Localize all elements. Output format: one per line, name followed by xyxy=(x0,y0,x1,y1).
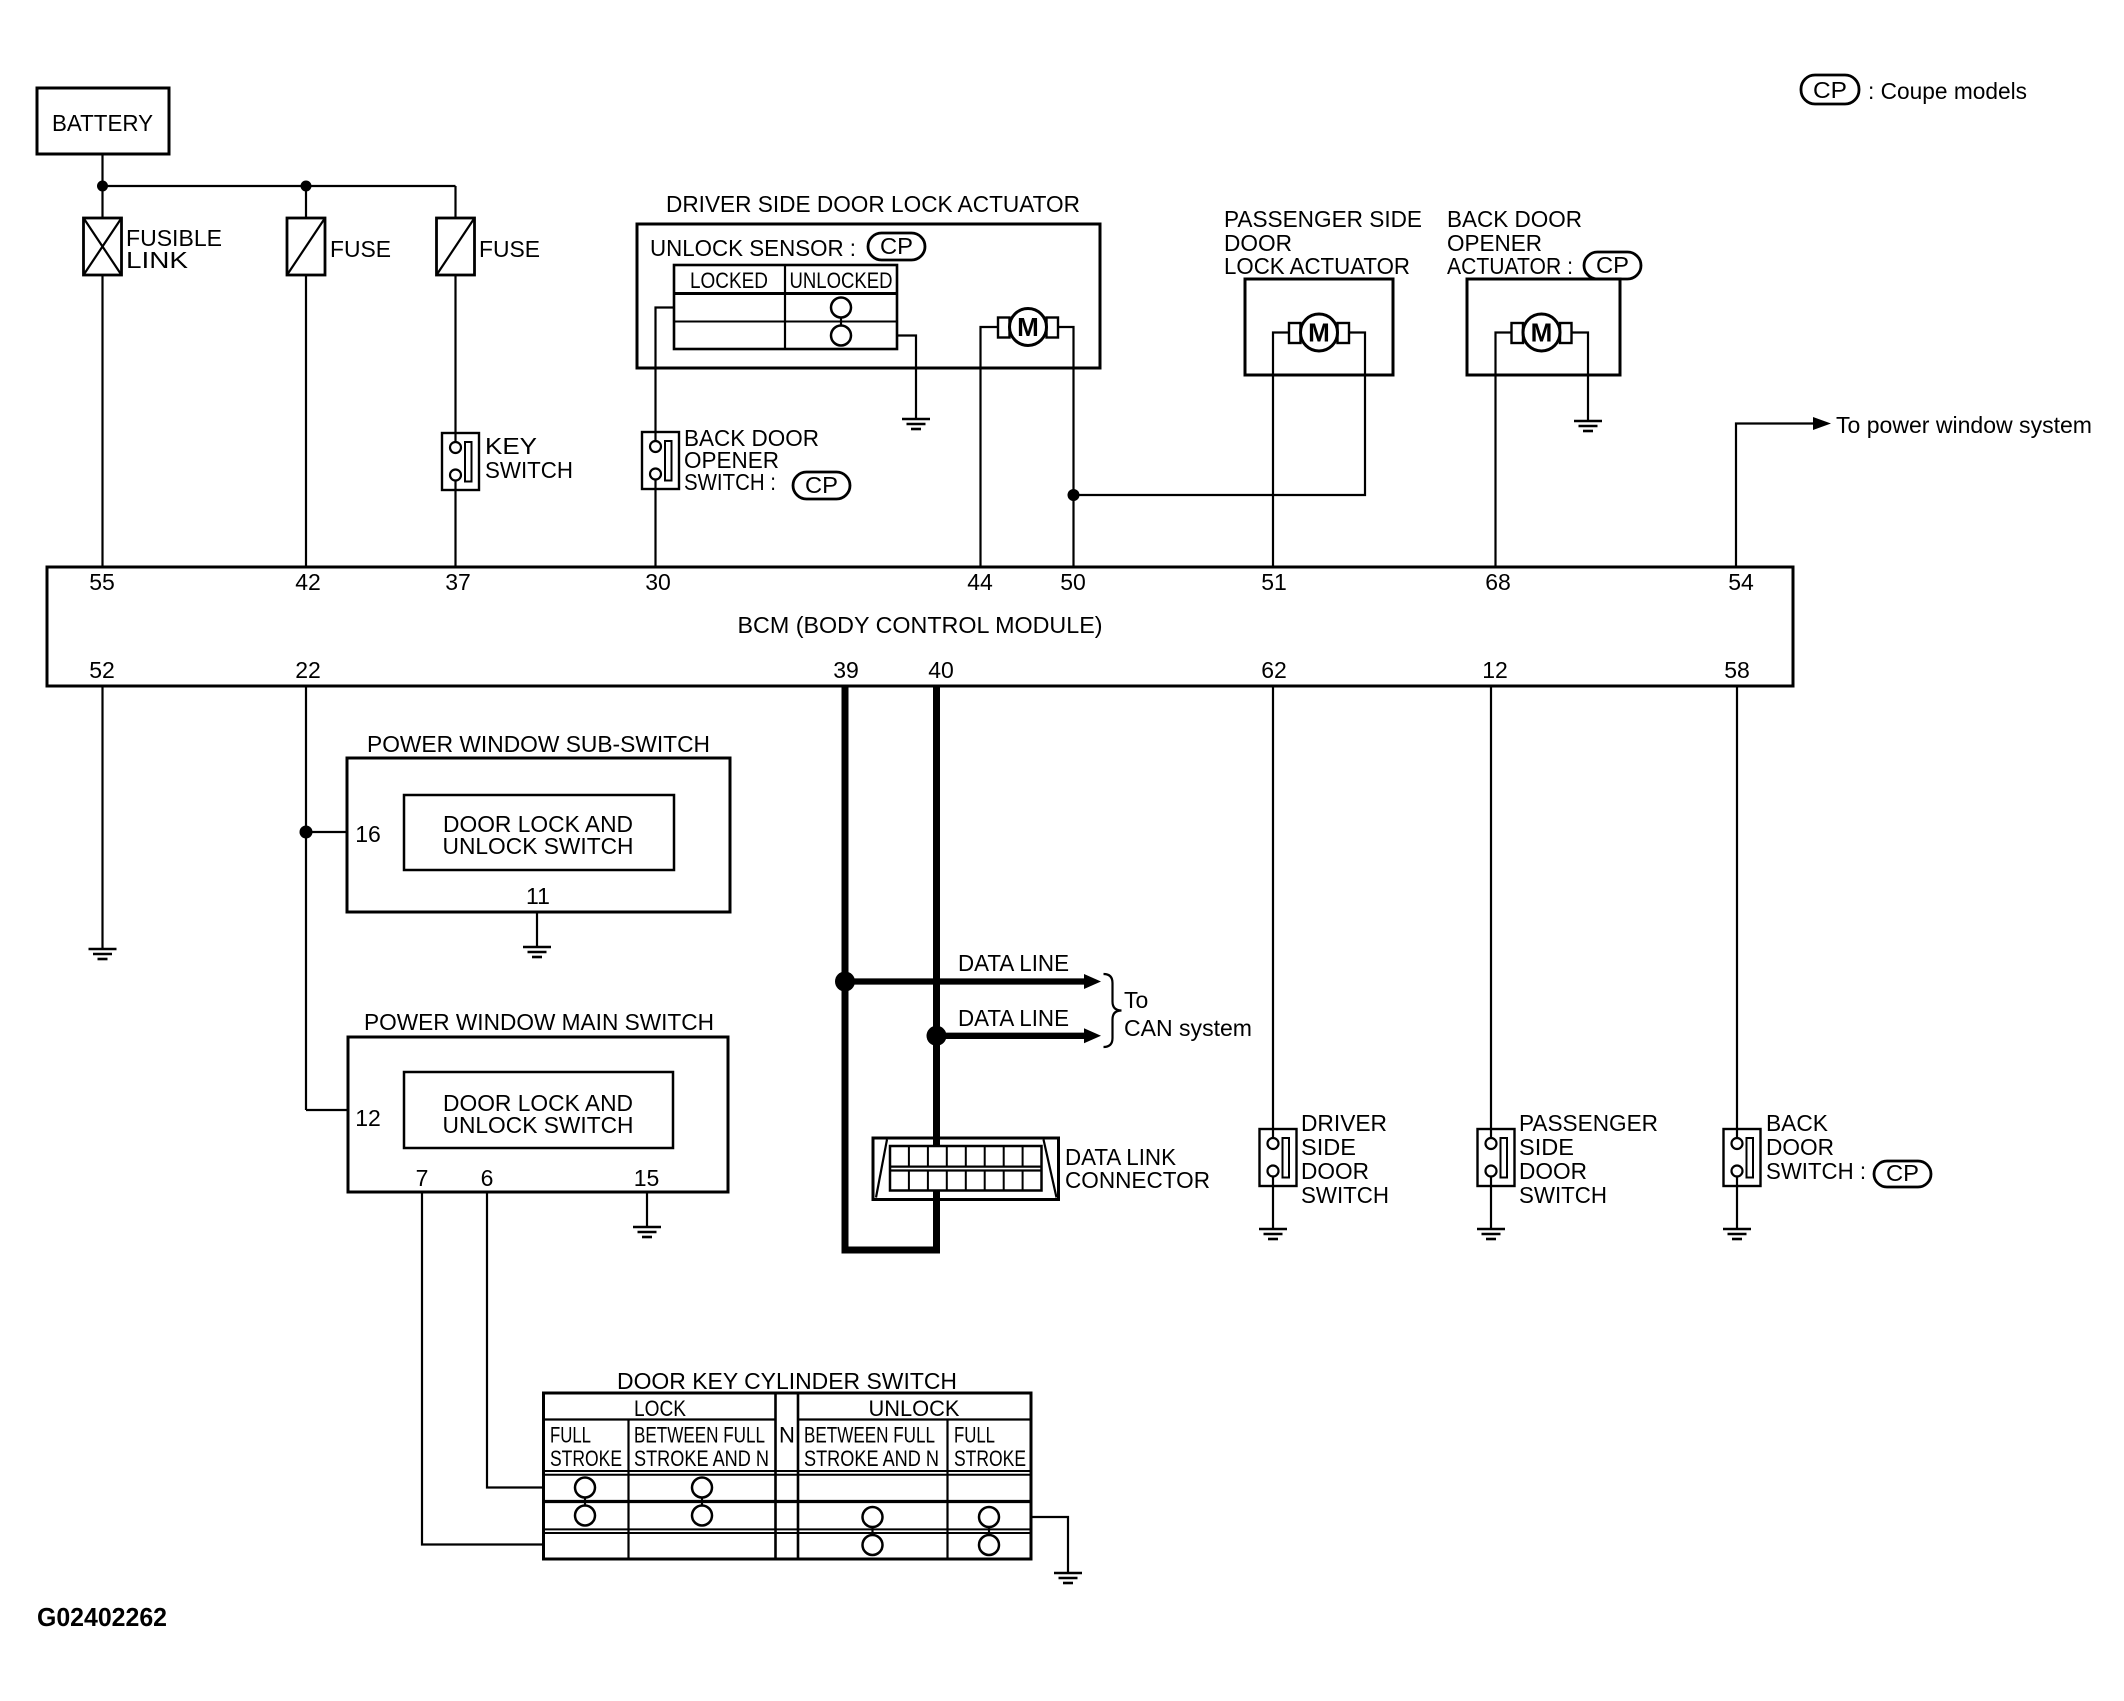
back door opener actuator title xyxy=(1447,206,1641,279)
wire pin 22 to main switch pin 12 xyxy=(306,1109,348,1111)
svg-text:UNLOCK SWITCH: UNLOCK SWITCH xyxy=(443,1112,634,1138)
wire unlock sensor to ground xyxy=(897,336,916,420)
junction pin 22 branch xyxy=(300,826,313,839)
wire back door opener switch to BCM pin 30 xyxy=(654,489,656,567)
svg-text:SIDE: SIDE xyxy=(1301,1134,1356,1160)
svg-text:KEY: KEY xyxy=(485,433,537,459)
unlock sensor label xyxy=(650,233,925,261)
ground pin 11 xyxy=(523,947,551,957)
key switch S1 xyxy=(442,433,573,490)
battery B1 xyxy=(37,88,169,154)
fuse F2 xyxy=(437,218,541,275)
svg-text:7: 7 xyxy=(416,1165,429,1191)
BCM (body control module) box xyxy=(47,567,1793,686)
label to CAN system xyxy=(1124,987,1252,1041)
svg-text:STROKE AND N: STROKE AND N xyxy=(634,1446,769,1471)
svg-text:CP: CP xyxy=(1813,77,1847,103)
passenger side door lock actuator title xyxy=(1224,206,1422,279)
wire driver motor left to pin 44 xyxy=(981,327,999,567)
wire pin 58 to back door switch xyxy=(1736,686,1738,1129)
wire pin 52 to ground xyxy=(101,686,103,949)
svg-text:SWITCH :: SWITCH : xyxy=(684,469,776,495)
wire fuse F2 to key switch xyxy=(454,275,456,433)
wire data line bottom link xyxy=(842,1247,941,1254)
svg-text:CAN system: CAN system xyxy=(1124,1015,1252,1041)
svg-text:LOCK ACTUATOR: LOCK ACTUATOR xyxy=(1224,253,1410,279)
fuse F1 xyxy=(287,218,391,275)
label full stroke (unlock) xyxy=(954,1423,1026,1472)
door lock and unlock switch inner box (main) xyxy=(404,1072,673,1148)
svg-text:DATA LINE: DATA LINE xyxy=(958,950,1069,976)
svg-text:SWITCH: SWITCH xyxy=(1301,1182,1389,1208)
unlock sensor contact xyxy=(831,298,851,346)
svg-text:CP: CP xyxy=(880,233,913,259)
data line arrow 1 xyxy=(845,950,1101,989)
contact unlock between full stroke and N xyxy=(863,1507,883,1555)
passenger side door lock actuator box xyxy=(1245,279,1393,375)
svg-text:39: 39 xyxy=(833,657,859,683)
wire back door switch to ground xyxy=(1736,1186,1738,1229)
ground driver side door switch xyxy=(1259,1229,1287,1239)
svg-text:UNLOCK SWITCH: UNLOCK SWITCH xyxy=(443,833,634,859)
junction data line 40 xyxy=(927,1026,947,1046)
wire pin 11 to ground xyxy=(536,912,538,947)
svg-text:BETWEEN FULL: BETWEEN FULL xyxy=(804,1423,935,1448)
svg-text:16: 16 xyxy=(355,821,381,847)
contact lock between full stroke and N xyxy=(692,1478,712,1526)
brace to CAN system xyxy=(1104,974,1122,1047)
svg-text:DRIVER SIDE DOOR LOCK ACTUATOR: DRIVER SIDE DOOR LOCK ACTUATOR xyxy=(666,191,1080,217)
passenger side door switch S4 xyxy=(1478,1110,1659,1208)
svg-text:58: 58 xyxy=(1724,657,1750,683)
junction bus-left xyxy=(97,181,108,192)
back door switch S5 xyxy=(1724,1110,1932,1187)
arrow to power window system xyxy=(1813,417,1831,430)
svg-text:BACK: BACK xyxy=(1766,1110,1829,1136)
wire data line 40 xyxy=(933,686,940,1250)
wire battery to bus xyxy=(101,154,103,186)
svg-text:UNLOCKED: UNLOCKED xyxy=(790,268,893,293)
ground back door switch xyxy=(1723,1229,1751,1239)
svg-text:SWITCH :: SWITCH : xyxy=(1766,1158,1866,1184)
svg-text:6: 6 xyxy=(481,1165,494,1191)
junction pin50 wire xyxy=(1068,489,1080,501)
svg-text:62: 62 xyxy=(1261,657,1287,683)
svg-text:52: 52 xyxy=(89,657,115,683)
wire pin 7 to key cylinder lower row xyxy=(422,1192,544,1545)
legend CP pill : Coupe models xyxy=(1801,75,2027,104)
wire bus to fusible link xyxy=(101,186,103,218)
svg-text:DATA LINE: DATA LINE xyxy=(958,1005,1069,1031)
svg-text:68: 68 xyxy=(1485,569,1511,595)
svg-text:CP: CP xyxy=(805,472,838,498)
svg-text:CONNECTOR: CONNECTOR xyxy=(1065,1167,1210,1193)
svg-text:To power window system: To power window system xyxy=(1836,412,2092,438)
wire pin 15 to ground xyxy=(646,1192,648,1227)
wire pin 6 to key cylinder upper row xyxy=(487,1192,544,1488)
label between full stroke and N (lock) xyxy=(634,1423,769,1472)
back door opener actuator box xyxy=(1467,279,1620,375)
contact lock full stroke xyxy=(575,1478,595,1526)
svg-text:SWITCH: SWITCH xyxy=(485,457,573,483)
wire passenger motor left to pin 51 xyxy=(1273,333,1289,568)
svg-text:BETWEEN FULL: BETWEEN FULL xyxy=(634,1423,765,1448)
door key cylinder switch table xyxy=(544,1393,1032,1559)
ground pin 52 xyxy=(89,949,117,959)
wire key cylinder to ground xyxy=(1031,1517,1068,1573)
svg-text:50: 50 xyxy=(1060,569,1086,595)
wire bus xyxy=(103,185,456,187)
svg-text:STROKE: STROKE xyxy=(550,1446,622,1471)
svg-text:55: 55 xyxy=(89,569,115,595)
svg-text:DRIVER: DRIVER xyxy=(1301,1110,1387,1136)
wire bus to fuse F1 xyxy=(305,186,307,218)
wire driver side door switch to ground xyxy=(1272,1186,1274,1229)
svg-text:51: 51 xyxy=(1261,569,1287,595)
svg-text:SWITCH: SWITCH xyxy=(1519,1182,1607,1208)
ground passenger side door switch xyxy=(1477,1229,1505,1239)
wire pin 54 to power window system xyxy=(1736,424,1814,568)
driver side door lock actuator box xyxy=(637,224,1100,368)
wire junction to passenger motor right xyxy=(1074,333,1366,496)
wire passenger side door switch to ground xyxy=(1490,1186,1492,1229)
ground unlock sensor xyxy=(902,419,930,429)
ground back door opener actuator xyxy=(1574,421,1602,431)
svg-text:FULL: FULL xyxy=(550,1423,591,1448)
svg-text:BCM (BODY CONTROL MODULE): BCM (BODY CONTROL MODULE) xyxy=(738,612,1103,638)
svg-text:BACK DOOR: BACK DOOR xyxy=(1447,206,1582,232)
svg-text:BATTERY: BATTERY xyxy=(52,110,153,136)
svg-text:22: 22 xyxy=(295,657,321,683)
svg-text:STROKE AND N: STROKE AND N xyxy=(804,1446,939,1471)
svg-text:LINK: LINK xyxy=(126,247,189,273)
svg-text:54: 54 xyxy=(1728,569,1754,595)
label full stroke (lock) xyxy=(550,1423,622,1472)
svg-text:POWER WINDOW MAIN SWITCH: POWER WINDOW MAIN SWITCH xyxy=(364,1009,714,1035)
svg-text:N: N xyxy=(779,1423,795,1448)
motor M2 passenger door lock xyxy=(1289,314,1349,351)
ground key cylinder switch xyxy=(1054,1573,1082,1583)
svg-text:37: 37 xyxy=(445,569,471,595)
motor M1 driver door lock xyxy=(998,309,1058,346)
svg-text:FUSE: FUSE xyxy=(330,236,391,262)
wire fusible link to BCM pin 55 xyxy=(101,275,103,567)
contact unlock full stroke xyxy=(979,1507,999,1555)
wire key switch to BCM pin 37 xyxy=(454,490,456,567)
data line arrow 2 xyxy=(937,1005,1102,1043)
svg-text:12: 12 xyxy=(355,1105,381,1131)
label between full stroke and N (unlock) xyxy=(804,1423,939,1472)
wire pin 62 to driver side door switch xyxy=(1272,686,1274,1129)
wire back door motor right to ground xyxy=(1572,333,1588,422)
junction bus-mid xyxy=(301,181,312,192)
svg-text:SIDE: SIDE xyxy=(1519,1134,1574,1160)
wire unlock sensor to pin 30 xyxy=(656,308,675,433)
ground pin 15 xyxy=(633,1227,661,1237)
wire driver motor right to pin 50 xyxy=(1058,327,1074,567)
svg-text:42: 42 xyxy=(295,569,321,595)
svg-text:To: To xyxy=(1124,987,1148,1013)
svg-text:G02402262: G02402262 xyxy=(37,1602,167,1632)
svg-text:UNLOCK SENSOR :: UNLOCK SENSOR : xyxy=(650,235,856,261)
svg-text:LOCKED: LOCKED xyxy=(690,268,768,293)
label data link connector xyxy=(1065,1144,1210,1193)
svg-text:DOOR: DOOR xyxy=(1519,1158,1587,1184)
svg-text:FULL: FULL xyxy=(954,1423,995,1448)
svg-text:DOOR: DOOR xyxy=(1766,1134,1834,1160)
wire branch to sub-switch pin 16 xyxy=(306,831,347,833)
wire pin 22 down xyxy=(305,686,307,1110)
door lock and unlock switch inner box (sub) xyxy=(404,795,674,870)
svg-text:CP: CP xyxy=(1596,252,1629,278)
wire data line 39 xyxy=(842,686,849,1250)
svg-text:STROKE: STROKE xyxy=(954,1446,1026,1471)
unlock sensor table xyxy=(674,265,897,349)
svg-text:: Coupe models: : Coupe models xyxy=(1868,78,2027,104)
svg-text:UNLOCK: UNLOCK xyxy=(869,1396,960,1421)
wire pin 12 to passenger side door switch xyxy=(1490,686,1492,1129)
svg-text:DOOR KEY CYLINDER SWITCH: DOOR KEY CYLINDER SWITCH xyxy=(617,1368,957,1394)
svg-text:POWER WINDOW SUB-SWITCH: POWER WINDOW SUB-SWITCH xyxy=(367,731,710,757)
svg-text:12: 12 xyxy=(1482,657,1508,683)
power window main switch box xyxy=(348,1037,728,1192)
svg-text:40: 40 xyxy=(928,657,954,683)
junction data line 39 xyxy=(835,972,855,992)
fusible link FL xyxy=(84,218,223,275)
data link connector xyxy=(873,1138,1059,1200)
svg-text:LOCK: LOCK xyxy=(634,1396,686,1421)
wire bus to fuse F2 xyxy=(454,186,456,218)
power window sub-switch box xyxy=(347,758,730,912)
svg-text:44: 44 xyxy=(967,569,993,595)
motor M3 back door opener xyxy=(1512,314,1572,351)
wire back door motor left to pin 68 xyxy=(1496,333,1512,568)
svg-text:11: 11 xyxy=(526,883,550,909)
svg-text:15: 15 xyxy=(634,1165,660,1191)
svg-text:FUSE: FUSE xyxy=(479,236,540,262)
svg-text:PASSENGER SIDE: PASSENGER SIDE xyxy=(1224,206,1422,232)
wire fuse F1 to BCM pin 42 xyxy=(305,275,307,567)
svg-text:30: 30 xyxy=(645,569,671,595)
svg-text:PASSENGER: PASSENGER xyxy=(1519,1110,1658,1136)
svg-text:DOOR: DOOR xyxy=(1301,1158,1369,1184)
svg-text:ACTUATOR :: ACTUATOR : xyxy=(1447,253,1573,279)
svg-text:CP: CP xyxy=(1886,1160,1919,1186)
driver side door switch S3 xyxy=(1260,1110,1390,1208)
back door opener switch S2 xyxy=(642,425,850,499)
